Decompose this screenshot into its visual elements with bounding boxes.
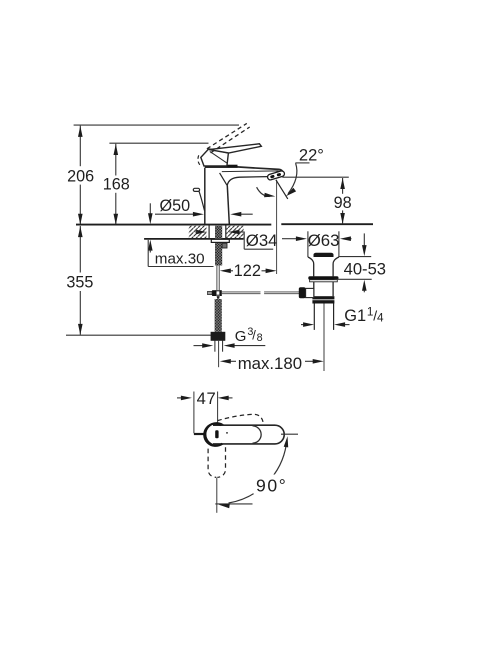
G3/8 arrows — [194, 345, 203, 347]
handle down position (dashed) — [208, 449, 216, 478]
svg-text:90°: 90° — [256, 476, 287, 496]
drain plug cap — [314, 253, 334, 257]
top view body circle — [205, 423, 227, 445]
svg-text:max.180: max.180 — [238, 354, 302, 373]
max.30 box — [147, 240, 149, 267]
47 extension lines — [193, 392, 195, 434]
countertop hatch right block — [226, 226, 243, 238]
svg-text:40-53: 40-53 — [344, 260, 386, 279]
spout underside curve — [227, 177, 268, 186]
hose connector nut — [211, 332, 226, 341]
aerator at spout tip — [267, 170, 285, 180]
lever body (cartridge dome) — [201, 149, 229, 166]
hose centerline — [218, 340, 220, 367]
22deg left arc — [257, 187, 270, 196]
drain actuator knob — [299, 287, 306, 298]
threaded shank — [215, 226, 222, 266]
lever joint thick bar — [205, 165, 238, 168]
centerline below handle — [216, 478, 218, 513]
D63 dimension arrows — [282, 238, 296, 240]
drain locknut dark bands — [312, 296, 334, 299]
temperature indicator — [215, 430, 218, 438]
22deg right arc — [288, 163, 297, 194]
svg-text:168: 168 — [103, 175, 130, 193]
ref line spout outlet level — [282, 176, 349, 178]
svg-text:122: 122 — [234, 262, 261, 280]
47 dimension — [177, 397, 182, 399]
drain lower body — [313, 282, 315, 296]
ref line top (206 level) — [74, 124, 239, 126]
dimension 122 — [225, 270, 233, 272]
dimension 206 vertical line — [79, 126, 81, 167]
svg-text:max.30: max.30 — [155, 251, 205, 268]
spout outlet extension line down — [276, 180, 278, 274]
svg-text:8: 8 — [257, 332, 263, 344]
90deg arc — [229, 445, 287, 504]
ref line 168 level — [109, 142, 208, 144]
dimension 355 vertical line — [79, 226, 81, 273]
water stream line — [276, 180, 288, 199]
top view spout tip bar — [194, 433, 206, 435]
spout top inner line — [222, 171, 281, 174]
drain centerline — [323, 304, 325, 372]
max.180 dimension — [225, 360, 237, 362]
90deg ref line horizontal — [281, 433, 298, 435]
drain seal ring — [308, 276, 338, 279]
drain washer under seal — [310, 280, 338, 282]
svg-text:206: 206 — [67, 167, 94, 185]
top view handle (solid) — [213, 425, 284, 444]
spout underside notch diagonal — [220, 173, 228, 186]
braided supply hose — [215, 299, 222, 332]
bottom ref line (355 end) — [66, 334, 211, 336]
handle tilted position (dashed) — [218, 414, 264, 423]
90deg ref line bottom — [215, 503, 252, 505]
drain tailpipe G1 1/4 — [313, 304, 315, 330]
lever blade — [209, 144, 261, 153]
countertop top line — [76, 224, 271, 226]
svg-text:4: 4 — [377, 310, 384, 324]
40-53 bottom ref line — [335, 278, 372, 280]
dimension 98 vertical — [342, 178, 344, 194]
horizontal pop-up rod — [222, 291, 261, 293]
dimension 168 vertical line — [115, 144, 117, 176]
lever raised position (dashed) — [207, 123, 247, 148]
circle left arc redraw — [204, 424, 222, 446]
svg-text:47: 47 — [197, 389, 217, 408]
svg-text:Ø50: Ø50 — [160, 197, 191, 215]
mounting hole edges — [208, 226, 210, 239]
label 90deg — [254, 475, 286, 495]
svg-text:22°: 22° — [299, 146, 324, 164]
max.30 annotation — [149, 203, 151, 214]
G1 1/4 dimension arrows — [301, 324, 304, 326]
handle inner end arc — [253, 426, 262, 443]
drain cup shoulder — [308, 257, 314, 276]
rod guide block — [222, 243, 227, 248]
horseshoe washer — [211, 239, 229, 242]
countertop hatch left block — [189, 226, 207, 238]
svg-text:G: G — [235, 328, 247, 345]
countertop bottom line — [144, 238, 244, 240]
40-53 vertical arrows — [363, 233, 365, 245]
svg-text:G1: G1 — [344, 307, 366, 325]
svg-text:98: 98 — [334, 194, 352, 212]
pop-up tee clamp — [208, 291, 213, 294]
faucet body outline — [204, 168, 206, 224]
spout top — [237, 167, 283, 173]
pop-up rod (vertical) — [216, 266, 218, 291]
40-53 top ref line — [339, 256, 371, 258]
svg-text:Ø34: Ø34 — [246, 231, 278, 250]
pop-up rod knob — [193, 188, 199, 191]
svg-text:355: 355 — [66, 274, 93, 292]
G3/8 nipple — [214, 340, 216, 352]
D34 box — [243, 232, 245, 250]
svg-text:Ø63: Ø63 — [308, 231, 340, 250]
D63 extension lines — [307, 231, 309, 257]
D34 leader arrow — [237, 231, 244, 233]
